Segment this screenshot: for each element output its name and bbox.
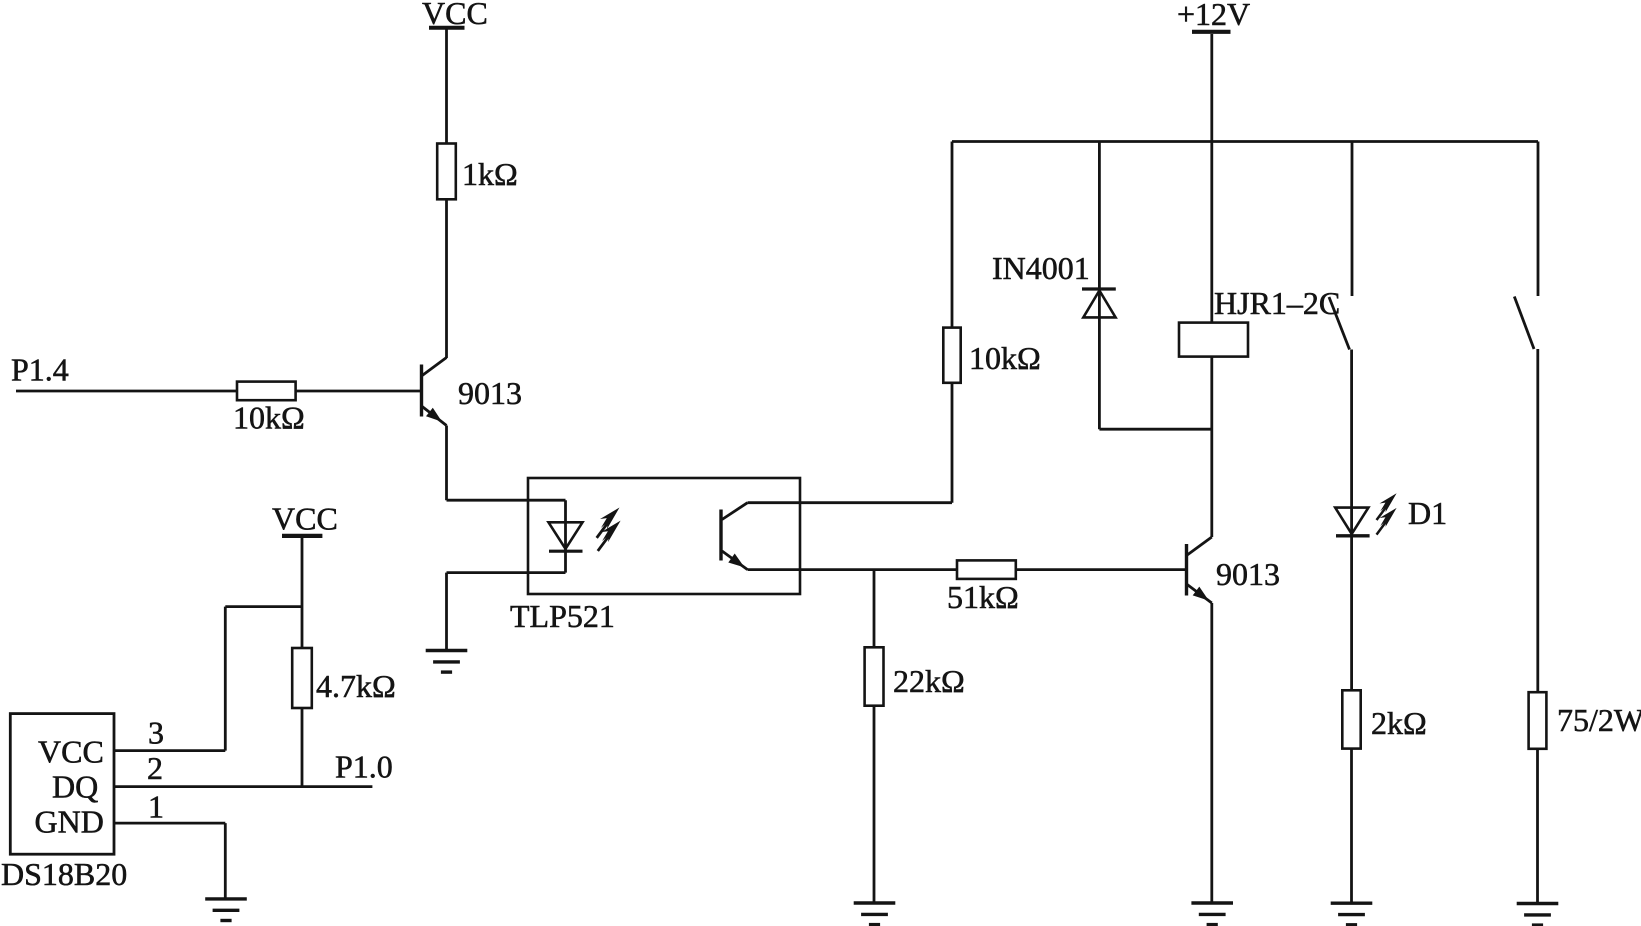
wire VCC to R1 top bbox=[445, 29, 448, 144]
+12V top rail wire bbox=[952, 140, 1538, 143]
wire +12V to relay coil top bbox=[1210, 34, 1213, 323]
svg-text:3: 3 bbox=[148, 715, 164, 751]
svg-text:P1.0: P1.0 bbox=[335, 749, 393, 785]
switch S1 (relay contact, left) bbox=[1329, 142, 1352, 536]
power +12V bbox=[1177, 0, 1250, 32]
ground (22k) bbox=[854, 903, 896, 925]
resistor 75/2W (load) bbox=[1529, 692, 1547, 749]
svg-text:DS18B20: DS18B20 bbox=[1, 856, 127, 892]
svg-text:VCC: VCC bbox=[272, 501, 338, 537]
resistor 22k (pull-down) bbox=[865, 647, 884, 705]
transistor Q2 9013 (relay driver) bbox=[1187, 537, 1212, 603]
resistor 10k (Q1 base) bbox=[237, 382, 296, 401]
svg-text:DQ: DQ bbox=[52, 769, 98, 805]
pin 3 wire (VCC) bbox=[114, 749, 225, 752]
svg-text:9013: 9013 bbox=[1216, 556, 1280, 592]
op-coupler U1 TLP521 package box bbox=[528, 478, 800, 594]
wire phototransistor emitter to 51k bbox=[748, 568, 958, 571]
svg-text:TLP521: TLP521 bbox=[510, 598, 615, 634]
wire 51k to Q2 base bbox=[1016, 568, 1185, 571]
resistor 10k (collector pull-up to +12V) bbox=[943, 328, 960, 383]
ground (75/2W) bbox=[1517, 904, 1559, 926]
TLP521 internal LED bbox=[549, 500, 583, 572]
transistor Q1 9013 (NPN) bbox=[422, 358, 447, 426]
svg-text:2: 2 bbox=[147, 750, 163, 786]
ground (Q2 emitter) bbox=[1191, 903, 1233, 925]
resistor R 1k (collector load of Q1) bbox=[437, 144, 456, 200]
svg-text:75/2W: 75/2W bbox=[1557, 702, 1641, 738]
relay HJR1-2C coil bbox=[1179, 323, 1248, 357]
svg-text:22kΩ: 22kΩ bbox=[893, 663, 965, 699]
svg-text:GND: GND bbox=[35, 804, 104, 840]
wire 4.7k bottom to DQ line bbox=[301, 708, 304, 787]
svg-text:1kΩ: 1kΩ bbox=[462, 156, 518, 192]
wire R1 bottom to Q1 collector bbox=[445, 199, 448, 358]
svg-text:P1.4: P1.4 bbox=[11, 352, 69, 388]
wire phototransistor collector to pull-up bbox=[748, 383, 953, 503]
wire diode anode to relay bottom node bbox=[1099, 428, 1211, 431]
ground (2k) bbox=[1331, 903, 1373, 925]
svg-text:D1: D1 bbox=[1408, 495, 1447, 531]
resistor 51k (Q2 base series) bbox=[957, 560, 1016, 579]
diode IN4001 (flyback) bbox=[1082, 142, 1116, 430]
power VCC (left, DS18B20 supply) bbox=[272, 501, 338, 537]
IC DS18B20 bbox=[10, 714, 114, 855]
resistor 2k (LED series) bbox=[1342, 690, 1360, 748]
wire VCC to 4.7k top bbox=[301, 538, 304, 648]
power VCC (top rail for Q1 collector load) bbox=[422, 0, 488, 31]
wire 10k top to +12V rail bbox=[951, 142, 954, 328]
svg-text:10kΩ: 10kΩ bbox=[233, 400, 305, 436]
pin 1 wire (GND) bbox=[114, 823, 225, 898]
svg-text:IN4001: IN4001 bbox=[992, 250, 1090, 286]
ground (DS18B20 pin 1) bbox=[205, 899, 247, 921]
wire 22k to ground bbox=[873, 706, 876, 903]
wire D1 cathode to 2k bbox=[1350, 536, 1353, 691]
svg-text:51kΩ: 51kΩ bbox=[947, 579, 1019, 615]
switch S2 (relay contact, right) bbox=[1514, 142, 1538, 693]
node junction: emitter row to 22k bbox=[873, 570, 876, 648]
wire VCC branch to pin 3 bbox=[225, 607, 302, 751]
svg-text:9013: 9013 bbox=[458, 375, 522, 411]
LED D1 indicator bbox=[1335, 508, 1369, 536]
svg-text:VCC: VCC bbox=[38, 734, 104, 770]
D1 light arrows bbox=[1370, 490, 1401, 521]
wire Q1 emitter to optocoupler LED anode bbox=[447, 499, 566, 502]
svg-text:10kΩ: 10kΩ bbox=[969, 340, 1041, 376]
wire LED cathode to ground bbox=[447, 573, 566, 650]
svg-text:1: 1 bbox=[148, 789, 164, 825]
pin 2 wire (DQ to P1.0) bbox=[114, 785, 373, 788]
wire relay coil bottom to Q2 collector bbox=[1210, 357, 1213, 537]
wire P1.4 to base resistor and Q1 base bbox=[16, 390, 420, 393]
wire 75/2W to ground bbox=[1536, 749, 1539, 904]
svg-text:4.7kΩ: 4.7kΩ bbox=[316, 668, 396, 704]
svg-text:2kΩ: 2kΩ bbox=[1371, 705, 1427, 741]
wire Q1 emitter down bbox=[445, 426, 448, 501]
ground (TLP521 LED cathode) bbox=[426, 651, 468, 673]
wire Q2 emitter to ground bbox=[1210, 603, 1213, 903]
wire 2k to ground bbox=[1350, 749, 1353, 903]
resistor 4.7k (DQ pull-up) bbox=[292, 648, 312, 708]
TLP521 LED light arrows bbox=[589, 504, 624, 539]
svg-text:HJR1–2C: HJR1–2C bbox=[1214, 285, 1340, 321]
svg-text:+12V: +12V bbox=[1177, 0, 1250, 32]
TLP521 internal phototransistor bbox=[721, 503, 748, 570]
